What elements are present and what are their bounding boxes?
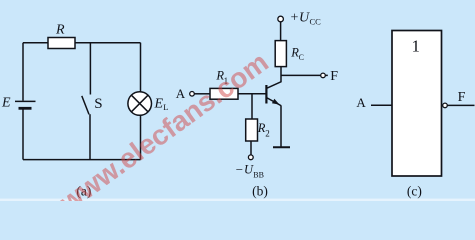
svg-text:E: E: [1, 96, 11, 111]
svg-text:−: −: [236, 162, 243, 177]
svg-text:A: A: [356, 95, 366, 110]
svg-text:CC: CC: [310, 17, 322, 27]
svg-text:2: 2: [265, 129, 270, 139]
svg-text:F: F: [330, 69, 338, 84]
svg-text:C: C: [299, 53, 304, 62]
svg-text:R: R: [55, 22, 65, 37]
svg-text:S: S: [94, 96, 102, 112]
svg-text:BB: BB: [253, 171, 264, 180]
svg-text:1: 1: [412, 36, 421, 55]
svg-text:(c): (c): [407, 183, 422, 198]
svg-text:F: F: [458, 90, 466, 105]
svg-text:E: E: [154, 96, 164, 111]
svg-text:U: U: [299, 11, 310, 26]
svg-text:www.elecfans.com: www.elecfans.com: [53, 46, 274, 201]
svg-text:(b): (b): [252, 183, 268, 198]
svg-text:+: +: [291, 11, 299, 26]
